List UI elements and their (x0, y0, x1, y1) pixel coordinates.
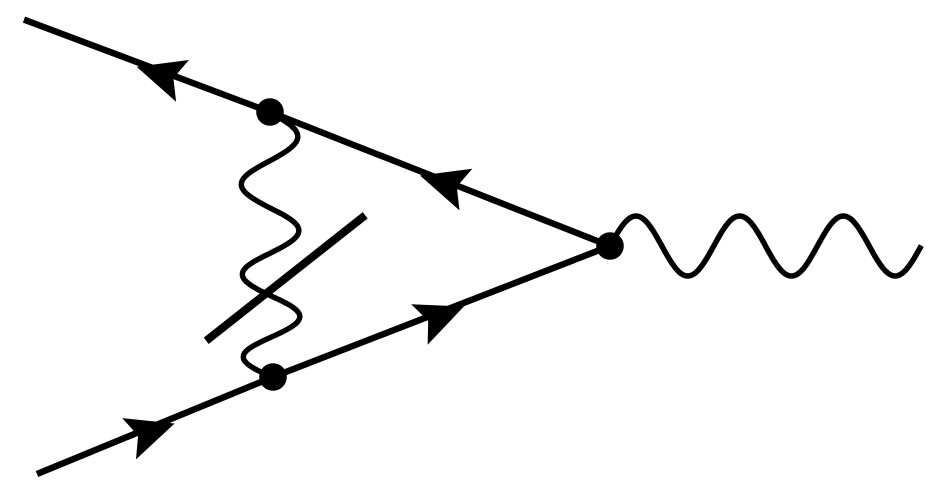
fermion arrow (top-left segment, pointing up-left) (137, 60, 189, 102)
cut / slash mark across internal photon (206, 215, 365, 340)
vertex dot (upper) (256, 98, 284, 126)
incoming fermion line (bottom, left segment) (37, 377, 273, 474)
fermion line (top, right segment to main vertex) (270, 112, 610, 246)
internal photon propagator (vertical wavy line between vertices) (241, 112, 299, 377)
fermion arrow (bottom-left segment, pointing up-right) (122, 418, 174, 459)
fermion arrow (top-right segment, pointing up-left) (420, 169, 472, 211)
external photon line (wavy, to the right) (610, 216, 921, 276)
vertex dot (main, right) (596, 232, 624, 260)
fermion line (bottom, right segment to main vertex) (273, 246, 610, 377)
incoming fermion line (top, left segment) (24, 20, 270, 112)
fermion arrow (bottom-right segment, pointing up-right) (411, 304, 464, 344)
vertex dot (lower) (259, 363, 287, 391)
